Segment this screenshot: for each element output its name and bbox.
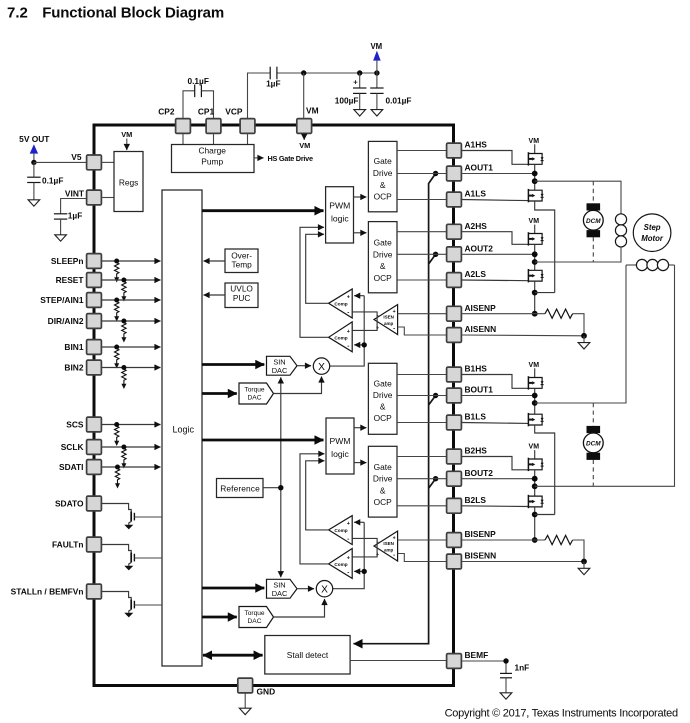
node junction dot AISENN ground — [581, 333, 587, 339]
capacitor 0.1uF (CP2-CP1 flying cap) — [183, 76, 214, 119]
node junction dot (X ref B) — [362, 569, 367, 574]
wire Gate Drive B1 to B1LS — [397, 422, 447, 424]
comparator Comp B1 — [329, 516, 353, 545]
svg-text:0.01µF: 0.01µF — [386, 96, 412, 106]
svg-text:Drive: Drive — [373, 390, 393, 400]
node junction dot AOUT1 — [532, 171, 538, 177]
ground (GND pin) — [244, 693, 246, 708]
arrow PWM logic A to Gate Drive A1 — [354, 196, 367, 198]
wire B2 low source to BISENP node — [534, 507, 536, 540]
block Logic — [162, 190, 202, 666]
wire A2LS gate — [462, 279, 529, 282]
svg-text:Drive: Drive — [373, 249, 393, 259]
wire X multiplier A to comparator references — [330, 296, 365, 366]
svg-text:OCP: OCP — [374, 192, 393, 202]
svg-text:DCM: DCM — [586, 218, 601, 225]
node junction dot BOUT2 sense — [433, 476, 438, 481]
wire Gate Drive A2 to A2LS — [397, 279, 447, 281]
ground (BEMF cap) — [500, 693, 512, 699]
capacitor 1uF (VINT bypass) — [54, 199, 87, 235]
comparator Comp B2 — [329, 549, 353, 579]
svg-text:0.1µF: 0.1µF — [42, 176, 63, 186]
transistor high-side A1 (external FET) — [529, 138, 540, 154]
resistor pulldown BIN2 — [121, 365, 126, 389]
node junction dot phase A winding bottom — [532, 259, 538, 265]
svg-text:logic: logic — [331, 449, 349, 459]
svg-text:GND: GND — [257, 686, 276, 696]
svg-text:DAC: DAC — [248, 395, 262, 402]
pin FAULTn — [52, 537, 101, 552]
wire A1 low source to sense join — [535, 201, 555, 293]
svg-text:VM: VM — [529, 362, 540, 369]
svg-text:Copyright © 2017, Texas Instru: Copyright © 2017, Texas Instruments Inco… — [445, 708, 678, 720]
capacitor 0.1uF (V5 bypass) — [27, 162, 63, 199]
wire phase B winding left lead — [535, 265, 626, 403]
resistor pulldown BIN1 — [114, 345, 119, 369]
svg-text:1µF: 1µF — [266, 78, 280, 88]
svg-text:amp: amp — [384, 547, 394, 552]
node junction dot (Reference) — [278, 485, 283, 490]
resistor B sense — [545, 535, 573, 544]
transistor low-side A1 (external FET) — [528, 189, 543, 202]
svg-text:STALLn / BEMFVn: STALLn / BEMFVn — [11, 587, 84, 597]
node junction dot A low-side sources — [532, 290, 538, 296]
wire (thick) Logic to PWM logic A — [202, 209, 324, 212]
wire A2 low source to AISENP node — [534, 281, 536, 314]
wire sense join B — [535, 514, 555, 516]
svg-text:VM: VM — [529, 138, 540, 145]
wire SCS to Logic — [102, 424, 161, 426]
pin B2HS — [447, 446, 488, 464]
node junction dot BOUT2 — [532, 476, 538, 482]
wire SDATI to Logic — [102, 466, 161, 468]
svg-text:VM: VM — [529, 218, 540, 225]
resistor pulldown STEP/AIN1 — [114, 298, 119, 322]
svg-text:BIN2: BIN2 — [64, 363, 83, 373]
node junction dot BOUT1 sense — [433, 393, 438, 398]
arrow PWM logic B to Gate Drive B2 — [354, 462, 366, 464]
svg-text:0.1µF: 0.1µF — [188, 76, 209, 86]
svg-text:Logic: Logic — [172, 424, 194, 434]
node junction dot (X ref A) — [362, 342, 367, 347]
svg-text:DAC: DAC — [272, 589, 288, 598]
wire B2HS gate jog — [462, 457, 529, 470]
pin BISENN — [447, 551, 497, 569]
arrow UVLO PUC to Logic — [204, 294, 226, 296]
power flag 5V OUT (blue triangle) — [19, 134, 50, 163]
pin BOUT1 — [447, 385, 494, 403]
svg-text:Torque: Torque — [244, 386, 264, 393]
wire A1LS gate — [462, 200, 529, 201]
resistor pulldown RESET — [121, 278, 126, 302]
pin STALLn / BEMFVn — [11, 584, 102, 599]
wire AISENP to sense resistor — [462, 313, 546, 315]
svg-text:AOUT1: AOUT1 — [465, 163, 494, 173]
arrow PWM logic B to Gate Drive B1 — [354, 427, 366, 429]
resistor pulldown SCS — [114, 422, 119, 446]
wire Comp B2 output to PWM logic B input — [300, 454, 329, 564]
node junction dot BOUT1 — [532, 393, 538, 399]
dac SIN DAC A — [267, 356, 298, 375]
node junction dot phase B winding left — [532, 400, 538, 406]
svg-text:Gate: Gate — [374, 379, 392, 389]
pin BIN1 — [64, 340, 101, 355]
pin AOUT2 — [447, 244, 494, 262]
block UVLO PUC — [225, 283, 258, 308]
wire RESET to Logic — [102, 279, 161, 281]
svg-text:OCP: OCP — [374, 413, 393, 423]
pin AISENN — [447, 324, 497, 342]
wire ISEN amp A input to AISENN — [398, 327, 447, 335]
wire SLEEPn to Logic — [102, 260, 161, 262]
wire B1LS gate — [462, 422, 529, 425]
svg-text:B2HS: B2HS — [465, 446, 488, 456]
svg-text:+: + — [347, 521, 350, 527]
resistor A sense — [545, 309, 573, 318]
svg-text:FAULTn: FAULTn — [52, 540, 83, 550]
pin B1LS — [447, 412, 487, 430]
multiplier X B — [316, 581, 332, 597]
wire VM rail from VCP riser to 0.01uF — [248, 73, 378, 119]
wire (thick) Logic to Torque DAC B — [202, 616, 237, 619]
wire Gate Drive A1 to A1LS — [397, 199, 447, 201]
svg-text:Comp: Comp — [334, 562, 347, 567]
section title 7.2 Functional Block Diagram — [7, 5, 224, 22]
wire B1 low source to sense join — [535, 425, 555, 515]
pin B1HS — [447, 364, 488, 382]
pin RESET — [56, 273, 102, 288]
pin GND — [238, 678, 275, 696]
wire sense resistor A to AISENN node — [573, 314, 584, 336]
wire A1HS gate jog — [462, 151, 529, 165]
svg-text:+: + — [353, 78, 358, 87]
svg-text:5V OUT: 5V OUT — [19, 134, 50, 144]
svg-text:Pump: Pump — [201, 157, 223, 167]
block Gate Drive & OCP B1 — [368, 363, 397, 434]
capacitor 0.01uF — [370, 73, 411, 110]
node junction dot AISENP — [532, 311, 538, 317]
pin DIR/AIN2 — [48, 314, 102, 329]
capacitor 1nF (BEMF) — [462, 661, 530, 693]
svg-text:+: + — [393, 536, 396, 542]
svg-text:1µF: 1µF — [68, 210, 82, 220]
svg-text:Drive: Drive — [373, 168, 393, 178]
svg-text:AISENN: AISENN — [465, 324, 497, 334]
pin V5 — [71, 152, 101, 170]
node junction dot (BEMF cap) — [503, 658, 508, 663]
wire Gate Drive B2 to BOUT2 — [397, 478, 447, 480]
svg-text:+: + — [347, 556, 350, 562]
wire phase A winding bottom lead — [535, 247, 621, 262]
svg-text:&: & — [380, 485, 386, 495]
motor DCM A (dashed alternative load) — [592, 181, 594, 262]
chip outline border — [94, 125, 454, 686]
wire Comp B1 output to PWM logic B input — [306, 461, 329, 530]
svg-text:OCP: OCP — [374, 273, 393, 283]
svg-text:Comp: Comp — [334, 528, 347, 533]
transistor high-side B1 (external FET) — [529, 362, 540, 378]
svg-text:PUC: PUC — [233, 293, 251, 303]
svg-text:A1LS: A1LS — [465, 189, 487, 199]
pin SCS — [66, 417, 101, 432]
ground (A sense) — [583, 336, 585, 343]
svg-text:&: & — [380, 402, 386, 412]
svg-text:DIR/AIN2: DIR/AIN2 — [48, 316, 84, 326]
arrow SIN DAC B to X — [297, 588, 314, 590]
svg-text:V5: V5 — [71, 152, 82, 162]
wire AOUT1 node chain — [462, 164, 535, 190]
svg-text:X: X — [318, 362, 325, 373]
wire STEP/AIN1 to Logic — [102, 299, 161, 301]
svg-text:Motor: Motor — [641, 234, 664, 243]
svg-text:+: + — [347, 294, 350, 300]
pin SCLK — [61, 440, 102, 455]
svg-text:SLEEPn: SLEEPn — [51, 256, 84, 266]
svg-text:PWM: PWM — [329, 436, 350, 446]
ground (0.01uF) — [371, 110, 383, 116]
pin CP2 — [158, 106, 190, 133]
svg-text:logic: logic — [331, 213, 349, 223]
wire Gate Drive B1 to B1HS — [397, 374, 447, 376]
node junction dot B low-side sources — [532, 512, 538, 518]
transistor open-drain SDATO — [102, 504, 163, 525]
wire (thick) Logic to Torque DAC A — [202, 392, 237, 395]
wire BOUT2 node chain — [462, 470, 535, 496]
svg-text:SDATI: SDATI — [59, 462, 84, 472]
svg-text:AISENP: AISENP — [465, 303, 497, 313]
node junction dot phase B winding right — [532, 483, 538, 489]
wire sense resistor B to BISENN node — [573, 540, 584, 562]
wire ISEN amp B input to BISENN — [398, 554, 447, 562]
wire V5 to Regs — [102, 161, 115, 163]
svg-text:CP2: CP2 — [158, 106, 175, 116]
svg-text:RESET: RESET — [56, 275, 85, 285]
wire (thick) Logic to PWM logic B — [202, 439, 324, 442]
resistor pulldown SLEEPn — [114, 259, 119, 283]
svg-text:Gate: Gate — [374, 238, 392, 248]
svg-text:A2LS: A2LS — [465, 269, 487, 279]
block PWM logic B — [326, 418, 354, 474]
svg-text:Gate: Gate — [374, 156, 392, 166]
svg-text:SCS: SCS — [66, 420, 84, 430]
svg-text:SDATO: SDATO — [55, 499, 84, 509]
svg-text:&: & — [380, 180, 386, 190]
wire Gate Drive A2 to A2HS — [397, 231, 447, 233]
motor Step Motor — [633, 214, 671, 252]
svg-text:+: + — [393, 309, 396, 315]
wire Reference to SIN DACs — [263, 377, 281, 577]
pin BOUT2 — [447, 468, 494, 486]
wire Stall detect to BEMF pin — [350, 660, 446, 662]
svg-text:-: - — [347, 343, 349, 350]
wire A2HS gate jog — [462, 232, 529, 245]
svg-text:DCM: DCM — [586, 440, 601, 447]
wire BEMF sense line (outputs to Stall detect) — [354, 174, 436, 644]
comparator Comp A2 — [329, 322, 353, 352]
transistor low-side B1 (external FET) — [528, 413, 543, 426]
block Stall detect — [265, 636, 350, 675]
svg-text:VM: VM — [306, 106, 319, 116]
pin VINT — [65, 189, 101, 205]
transistor high-side A2 (external FET) — [529, 218, 540, 233]
node junction dot 5V OUT / V5 — [31, 160, 36, 165]
wire X multiplier B to comparator references — [333, 522, 364, 588]
ground (B sense) — [583, 562, 585, 569]
svg-text:VM: VM — [370, 42, 382, 51]
wire AOUT2 node chain — [462, 244, 535, 270]
capacitor 100uF (bulk, polarized) — [335, 73, 367, 110]
pin A2LS — [447, 269, 487, 287]
arrow Over-Temp to Logic — [204, 260, 226, 262]
wire ISEN amp B input to BISENP — [398, 539, 447, 541]
block Regs — [114, 152, 143, 212]
svg-text:DAC: DAC — [272, 366, 288, 375]
svg-text:SCLK: SCLK — [61, 442, 84, 452]
svg-text:VM: VM — [529, 444, 540, 451]
svg-text:HS Gate Drive: HS Gate Drive — [268, 154, 314, 163]
svg-text:VCP: VCP — [225, 107, 243, 117]
comparator Comp A1 — [329, 289, 353, 318]
pin A1LS — [447, 189, 487, 207]
svg-text:Drive: Drive — [373, 474, 393, 484]
wire B2LS gate — [462, 505, 529, 508]
motor DCM B (dashed alternative load) — [592, 403, 594, 486]
svg-text:X: X — [321, 584, 328, 595]
svg-text:VINT: VINT — [65, 189, 85, 199]
wire phase A winding top lead — [535, 181, 621, 214]
arrow VM into Regs — [121, 130, 132, 150]
wire Torque DAC A to X (arrow up) — [274, 377, 322, 394]
svg-text:OCP: OCP — [374, 497, 393, 507]
svg-text:amp: amp — [384, 321, 394, 326]
transistor low-side B2 (external FET) — [528, 495, 543, 508]
resistor pulldown DIR/AIN2 — [121, 319, 126, 343]
wire DIR/AIN2 to Logic — [102, 320, 161, 322]
wire (thick) Logic to SIN DAC B — [202, 587, 264, 590]
wire ISEN amp A input to AISENP — [398, 313, 447, 315]
wire (thick) Logic to SIN DAC A — [202, 363, 264, 366]
wire phase B winding right lead — [535, 265, 675, 486]
svg-text:STEP/AIN1: STEP/AIN1 — [40, 295, 84, 305]
svg-text:&: & — [380, 261, 386, 271]
svg-text:Reference: Reference — [220, 483, 260, 493]
wire BISENP to sense resistor — [462, 539, 546, 541]
wire BISENN to ground node — [462, 561, 585, 563]
block Charge Pump — [172, 145, 255, 173]
ground (VINT cap) — [55, 235, 67, 241]
wire Gate Drive A2 to AOUT2 — [397, 253, 447, 255]
block Gate Drive & OCP B2 — [368, 446, 397, 517]
pin A1HS — [447, 140, 488, 158]
svg-text:Comp: Comp — [334, 302, 347, 307]
svg-text:VM: VM — [121, 130, 132, 139]
wire B1HS gate jog — [462, 375, 529, 389]
svg-text:ISEN: ISEN — [383, 314, 394, 319]
svg-text:-: - — [347, 570, 349, 577]
dac Torque DAC A — [239, 383, 274, 404]
node junction dot AOUT2 — [532, 251, 538, 257]
wire BIN2 to Logic — [102, 367, 161, 369]
svg-text:A1HS: A1HS — [465, 140, 488, 150]
resistor pulldown SCLK — [121, 445, 126, 469]
svg-text:7.2: 7.2 — [7, 5, 28, 22]
transistor low-side A2 (external FET) — [528, 269, 543, 282]
dac Torque DAC B — [239, 607, 274, 628]
svg-text:1nF: 1nF — [515, 662, 530, 672]
pin BEMF — [447, 650, 489, 668]
power flag VM (blue triangle) — [370, 42, 382, 73]
svg-text:-: - — [347, 309, 349, 316]
node junction dot AOUT1 sense — [433, 171, 438, 176]
svg-text:Torque: Torque — [244, 610, 264, 617]
pin SDATO — [55, 496, 101, 511]
svg-text:-: - — [347, 536, 349, 543]
svg-text:B2LS: B2LS — [465, 495, 487, 505]
wire Comp A1 output to PWM logic A input — [306, 234, 329, 303]
svg-text:B1LS: B1LS — [465, 412, 487, 422]
wire Gate Drive A1 to A1HS — [397, 150, 447, 152]
arrow SIN DAC A to X — [297, 365, 311, 367]
inductor phase A winding — [615, 214, 626, 247]
node junction dot AOUT2 sense — [433, 252, 438, 257]
wire ISEN amp A output to comparator inputs — [352, 312, 377, 331]
multiplier X A — [313, 358, 329, 374]
svg-text:BEMF: BEMF — [465, 650, 489, 660]
svg-text:BISENN: BISENN — [465, 551, 497, 561]
svg-text:BISENP: BISENP — [465, 529, 497, 539]
wire VINT to Regs — [102, 197, 115, 199]
svg-text:Comp: Comp — [334, 336, 347, 341]
svg-text:Charge: Charge — [198, 146, 226, 156]
wire Gate Drive B1 to BOUT1 — [397, 395, 447, 397]
wire ISEN amp B output to comparator inputs — [352, 538, 377, 557]
wire Torque DAC B to X (arrow up) — [274, 599, 325, 617]
wire BIN1 to Logic — [102, 346, 161, 348]
pin VCP — [225, 107, 255, 134]
svg-text:BOUT2: BOUT2 — [465, 468, 494, 478]
wires CP2/CP1/VCP into charge pump — [183, 134, 248, 145]
wire 5V OUT to V5 pin — [34, 161, 87, 163]
pin B2LS — [447, 495, 487, 513]
node junction dot at 0.01uF / VM arrow — [374, 70, 379, 75]
svg-text:Temp: Temp — [231, 260, 252, 270]
svg-text:A2HS: A2HS — [465, 221, 488, 231]
wire Comp A2 output to PWM logic A input — [300, 227, 329, 337]
svg-text:-: - — [393, 552, 395, 559]
pin VM — [297, 106, 319, 134]
ground (V5 cap) — [28, 200, 40, 206]
node junction dot at 100uF — [357, 70, 362, 75]
ground (100uF) — [354, 110, 366, 116]
svg-text:CP1: CP1 — [198, 107, 215, 117]
pin AOUT1 — [447, 163, 494, 181]
svg-text:ISEN: ISEN — [383, 541, 394, 546]
block Gate Drive & OCP A2 — [368, 222, 397, 293]
node junction dot BISENP — [532, 537, 538, 543]
pin SDATI — [59, 460, 101, 475]
capacitor 1uF (charge pump flying cap) — [266, 67, 280, 89]
ground (FAULTn fet) — [124, 566, 133, 571]
svg-text:PWM: PWM — [329, 200, 350, 210]
transistor open-drain FAULTn — [102, 545, 163, 566]
ground (SDATO fet) — [124, 525, 133, 530]
arrow HS Gate Drive output — [254, 154, 313, 163]
svg-text:Regs: Regs — [119, 177, 139, 187]
dac SIN DAC B — [267, 579, 298, 598]
svg-text:+: + — [347, 329, 350, 335]
pin A2HS — [447, 221, 488, 239]
pin AISENP — [447, 303, 496, 321]
